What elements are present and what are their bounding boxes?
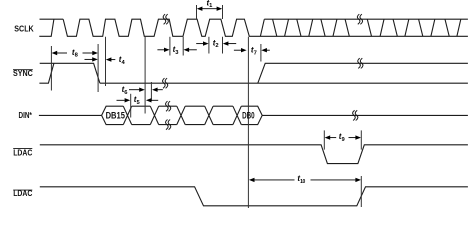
node t2 left bar (208, 37, 210, 54)
node t8 left bar (50, 46, 52, 91)
node DIN crossover X2 (150, 106, 158, 124)
node t6 right bar (150, 82, 152, 101)
wire SCLK dense top rail (264, 18, 468, 20)
node break SYNC low (163, 78, 168, 88)
node break SYNC high right (358, 58, 363, 68)
wire SYNC high rail left (40, 63, 100, 83)
svg-text:SCLK: SCLK (14, 24, 33, 34)
node guide SCLK rise P3 (105, 37, 107, 86)
arrows (52, 7, 361, 183)
node t3 right bar (182, 37, 184, 56)
t7 arrows (234, 49, 242, 51)
wire SCLK dense rising edges (260, 19, 460, 36)
wire LDAC2 waveform (40, 187, 468, 206)
wire SYNC lead-in low stub (39, 63, 54, 83)
node t10 right bar (360, 176, 362, 207)
wire DIN cell3 (159, 106, 177, 124)
wire DIN cell4 (185, 106, 205, 124)
t3 arrows (157, 49, 165, 51)
wire DIN lead-in (39, 114, 102, 116)
t2 arrows (196, 43, 204, 45)
t9 double arrow (330, 137, 337, 139)
node t9 right bar (360, 130, 362, 149)
svg-text:LDAC: LDAC (13, 188, 32, 198)
t8 arrows (57, 52, 67, 54)
wire DIN tail (262, 114, 468, 116)
node guide 16th SCLK falling edge (full height) (247, 37, 249, 208)
measurement guide bars (51, 5, 361, 208)
node DIN crossover X1 (123, 106, 131, 124)
wire SCLK lead-in low pulse (39, 19, 54, 36)
node break DIN cell3 top (166, 101, 171, 111)
svg-text:DB15: DB15 (106, 110, 125, 120)
node break DIN cell3 bottom (166, 120, 171, 130)
wire SCLK main pulse train (63, 19, 468, 36)
wire SYNC low line (100, 82, 468, 84)
node break DIN tail (353, 110, 358, 120)
node t1 right bar (222, 5, 224, 19)
svg-text:LDAC: LDAC (13, 148, 32, 158)
node DB15 hexagon (102, 106, 124, 124)
wire SCLK dense falling edges (273, 19, 450, 36)
node t3 left bar (169, 37, 171, 56)
node DB0 hexagon (241, 106, 262, 124)
node t5 left bar (130, 94, 132, 118)
t1 double arrow (201, 8, 219, 10)
node DIN crossover X5 (233, 106, 241, 124)
t4 arrows (85, 58, 93, 60)
node t7 right bar (260, 44, 262, 62)
wire LDAC1 waveform (40, 145, 468, 164)
node break SCLK left (163, 14, 168, 24)
wire SCLK lead-in high rail (40, 18, 64, 20)
wire DIN cell2 (132, 106, 151, 124)
t5 arrows (117, 99, 125, 101)
svg-text:DIN*: DIN* (19, 110, 33, 120)
node DIN crossover X3 (177, 106, 185, 124)
t10 double arrow (254, 179, 295, 181)
svg-text:DB0: DB0 (242, 110, 255, 120)
wire DIN cell5 (213, 106, 233, 124)
wire SYNC rising edge and right high rail (258, 63, 468, 83)
node t5/t6 shared bar (144, 37, 146, 114)
node break SCLK right (357, 14, 362, 24)
node t9 left bar (323, 130, 325, 149)
node t2 right bar (222, 37, 224, 54)
node t8 right bar (97, 44, 99, 92)
t6 arrows (129, 89, 140, 91)
node DIN crossover X4 (205, 106, 213, 124)
node t1 left bar (196, 5, 198, 19)
